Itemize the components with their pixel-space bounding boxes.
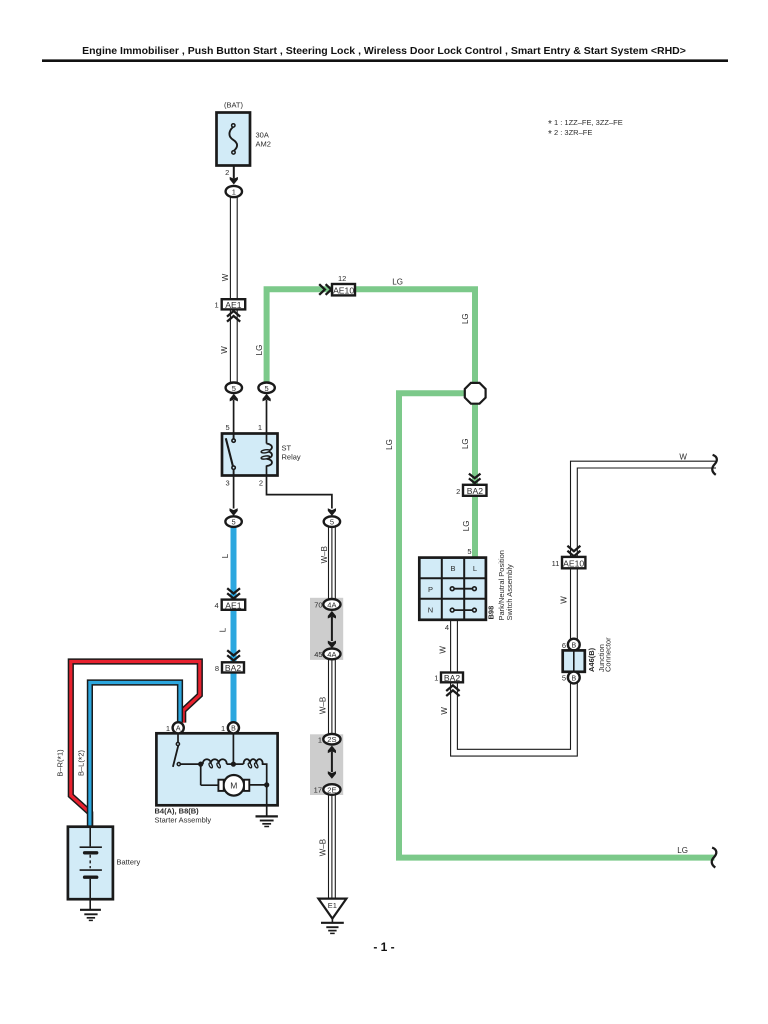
svg-text:AE1: AE1: [225, 600, 241, 610]
connector 8 BA2: [222, 662, 244, 672]
connector oval 1: [226, 186, 242, 197]
chevrons above 11 AE10: [567, 546, 580, 556]
wire relay pin2 down and right: [267, 476, 332, 509]
svg-text:4: 4: [445, 623, 449, 632]
svg-text:4A: 4A: [327, 650, 336, 659]
connector oval 17 2E: [323, 784, 340, 795]
svg-text:LG: LG: [462, 521, 471, 532]
svg-text:M: M: [230, 781, 237, 791]
svg-text:B: B: [450, 564, 455, 573]
ground E1 bars: [331, 919, 333, 923]
battery ground: [80, 909, 101, 911]
svg-text:2E: 2E: [327, 785, 336, 794]
wire W 1 AE1 to relay connector 5: [230, 309, 238, 383]
svg-text:5: 5: [232, 384, 236, 393]
arrow down into 17 2E: [328, 771, 336, 779]
svg-text:(BAT): (BAT): [224, 101, 244, 110]
connector 4 AE1: [222, 600, 246, 610]
wire relay pin1: [266, 400, 268, 434]
arrow up into oval 5 left: [230, 394, 238, 402]
svg-text:W–B: W–B: [318, 697, 327, 714]
connector oval 70 4A: [323, 599, 340, 610]
svg-text:W: W: [220, 346, 229, 354]
motor M: [200, 764, 202, 785]
svg-text:W–B: W–B: [320, 546, 329, 563]
connector oval 1 2S: [323, 734, 340, 745]
svg-text:AM2: AM2: [256, 140, 271, 149]
arrow into oval 5: [230, 508, 238, 516]
svg-text:2: 2: [259, 479, 263, 488]
svg-text:5: 5: [232, 518, 236, 527]
svg-text:B: B: [571, 642, 576, 649]
connector oval 5 left: [226, 383, 242, 394]
wire W-B relay pin2 to E1 ground: [328, 527, 336, 602]
svg-text:5: 5: [562, 674, 566, 683]
wire B-L battery to starter A: [90, 683, 180, 828]
svg-text:LG: LG: [677, 846, 688, 855]
connector oval 45 4A: [323, 649, 340, 660]
arrow into oval 5 right: [328, 508, 336, 516]
wire W 11 AE10 down to junction connector: [570, 568, 578, 640]
terminal B circle: [228, 722, 239, 733]
wire LG octagon splice left, down and right to page edge: [399, 393, 714, 857]
svg-text:W: W: [221, 273, 230, 281]
svg-text:5: 5: [467, 547, 471, 556]
svg-text:4: 4: [215, 601, 219, 610]
svg-text:A: A: [176, 726, 181, 733]
wire relay pin3 down: [233, 476, 235, 509]
svg-text:4A: 4A: [327, 600, 336, 609]
svg-text:B4(A), B8(B): B4(A), B8(B): [155, 807, 200, 816]
wire relay pin5: [233, 400, 235, 434]
svg-text:LG: LG: [255, 345, 264, 356]
svg-text:3: 3: [226, 479, 230, 488]
svg-text:6: 6: [562, 641, 566, 650]
connector 11 AE10: [562, 557, 585, 568]
svg-text:B: B: [231, 726, 236, 733]
svg-text:17: 17: [314, 786, 322, 795]
wire B to coil junction: [232, 733, 234, 764]
svg-text:5: 5: [330, 518, 334, 527]
wire coil to right side down: [262, 764, 267, 784]
svg-text:1: 1: [434, 674, 438, 683]
svg-text:B: B: [571, 675, 576, 682]
svg-text:5: 5: [226, 423, 230, 432]
svg-text:W: W: [439, 646, 448, 654]
chevrons into 4 AE1 on blue: [227, 588, 240, 598]
link line: [331, 617, 333, 641]
terminal A circle: [173, 722, 184, 733]
contact P row: [452, 588, 474, 590]
svg-text:Switch Assembly: Switch Assembly: [505, 564, 514, 621]
svg-text:1: 1: [166, 724, 170, 733]
wire LG 2 BA2 down to park/neutral switch pin5: [472, 496, 478, 558]
svg-text:2: 2: [456, 487, 460, 496]
starter switch: [177, 733, 179, 742]
arrow down into 45 4A: [328, 641, 336, 649]
svg-text:A46(B): A46(B): [587, 647, 596, 672]
wire W park/neutral pin4 to 1 BA2: [450, 620, 458, 673]
ground E1 triangle: [318, 899, 346, 919]
svg-text:W: W: [559, 596, 568, 604]
connector oval 5 below pin3: [225, 516, 241, 527]
relay switch: [233, 434, 235, 440]
wire W fuse to 1 AE1: [230, 197, 238, 299]
svg-text:1: 1: [318, 735, 322, 744]
continuation squiggle W wire: [712, 455, 717, 475]
svg-text:* 2 : 3ZR–FE: * 2 : 3ZR–FE: [548, 128, 592, 140]
svg-text:12: 12: [338, 274, 346, 283]
svg-text:LG: LG: [461, 313, 470, 324]
svg-text:P: P: [428, 585, 433, 594]
svg-text:L: L: [219, 627, 228, 632]
svg-text:B98: B98: [487, 606, 496, 620]
coil 1: [203, 759, 227, 764]
gray highlight block 4A: [310, 598, 343, 660]
svg-text:B–R(*1): B–R(*1): [56, 749, 67, 777]
link line: [331, 752, 333, 773]
svg-text:LG: LG: [385, 439, 394, 450]
svg-text:Engine Immobiliser , Push Butt: Engine Immobiliser , Push Button Start ,…: [82, 45, 686, 57]
relay coil: [266, 434, 268, 444]
svg-text:Battery: Battery: [117, 858, 141, 867]
connector oval 5 right green: [258, 383, 274, 394]
svg-text:5: 5: [265, 384, 269, 393]
svg-text:BA2: BA2: [444, 673, 460, 683]
title underline: [42, 59, 728, 62]
svg-text:LG: LG: [392, 278, 403, 287]
svg-text:30A: 30A: [256, 131, 269, 140]
svg-text:BA2: BA2: [225, 663, 241, 673]
svg-text:LG: LG: [461, 438, 470, 449]
svg-text:BA2: BA2: [467, 486, 483, 496]
svg-text:1: 1: [221, 724, 225, 733]
junction connector oval B pin6: [568, 639, 580, 651]
svg-text:45: 45: [314, 650, 322, 659]
svg-text:W: W: [679, 452, 687, 461]
svg-text:70: 70: [314, 601, 322, 610]
svg-text:W: W: [440, 707, 449, 715]
connector oval 5 on W-B: [324, 516, 340, 527]
wire LG from relay pin1 up and right to splice column: [267, 289, 475, 385]
chevrons into 8 BA2 on blue: [227, 650, 240, 660]
wire B-R battery to starter A: [71, 662, 200, 828]
svg-text:1: 1: [215, 301, 219, 310]
svg-text:11: 11: [552, 559, 560, 568]
fuse element: [229, 127, 237, 151]
svg-text:1: 1: [258, 423, 262, 432]
arrow up into 70 4A: [328, 611, 336, 619]
chevrons into 2 BA2: [469, 474, 481, 483]
svg-text:B–L(*2): B–L(*2): [77, 749, 88, 776]
connector 2 BA2: [463, 485, 487, 496]
arrow up into oval 5 right: [263, 394, 271, 402]
svg-text:Connector: Connector: [603, 637, 612, 672]
chevrons below 1 BA2: [446, 685, 459, 696]
contact N row: [452, 609, 474, 611]
park/neutral switch B98 grid: [419, 558, 486, 620]
starter assembly box: [156, 733, 277, 805]
junction connector oval B pin5: [568, 672, 580, 684]
svg-text:Starter Assembly: Starter Assembly: [155, 816, 212, 825]
svg-text:L: L: [221, 553, 230, 558]
chevrons below 1 AE1: [227, 311, 240, 322]
svg-text:L: L: [473, 564, 477, 573]
svg-text:ST: ST: [282, 444, 292, 453]
svg-text:- 1 -: - 1 -: [373, 940, 394, 954]
octagon splice: [465, 383, 486, 404]
continuation squiggle green wire: [712, 848, 717, 868]
connector AE10 horizontal: [332, 284, 355, 295]
chevrons into AE10 on green: [319, 284, 331, 295]
svg-text:2S: 2S: [327, 735, 336, 744]
starter coil wiring: [180, 763, 202, 765]
svg-text:2: 2: [225, 168, 229, 177]
wire fuse to connector 1: [233, 166, 235, 179]
wire W junction connector pin5 to 1 BA2 U-route: [454, 682, 574, 752]
gray highlight block 2S/2E: [310, 734, 343, 795]
wire W from page edge to 11 AE10: [574, 465, 716, 557]
svg-text:Relay: Relay: [282, 453, 301, 462]
connector 1 BA2: [441, 673, 463, 683]
svg-text:E1: E1: [328, 901, 337, 910]
arrow into connector 1: [230, 177, 238, 185]
arrow up into 1 2S: [328, 746, 336, 754]
svg-text:8: 8: [215, 664, 219, 673]
coil 2: [244, 759, 263, 764]
battery box: [68, 827, 113, 900]
wire LG octagon splice down to 2 BA2: [472, 403, 478, 485]
starter ground: [266, 785, 268, 816]
svg-text:AE1: AE1: [225, 300, 241, 310]
svg-text:1: 1: [232, 188, 236, 197]
junction connector A46(B) box: [563, 650, 585, 671]
connector 1 AE1: [222, 299, 246, 309]
svg-text:N: N: [428, 606, 433, 615]
svg-text:AE10: AE10: [333, 286, 354, 296]
ST relay box: [222, 434, 278, 476]
wire L blue relay pin3 to starter B: [231, 527, 237, 723]
fuse AM2 box: [217, 113, 251, 166]
battery cells: [89, 827, 91, 847]
svg-text:W–B: W–B: [318, 839, 327, 856]
svg-text:AE10: AE10: [563, 558, 584, 568]
